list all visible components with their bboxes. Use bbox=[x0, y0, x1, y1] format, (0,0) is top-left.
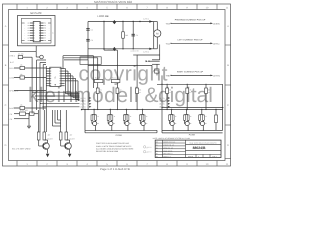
svg-text:D: D bbox=[227, 144, 229, 147]
svg-text:germ: germ bbox=[146, 151, 151, 154]
svg-text:A-GN: A-GN bbox=[108, 47, 113, 50]
svg-text:RESISTORS IN OHM 1/8W: RESISTORS IN OHM 1/8W bbox=[96, 150, 118, 153]
svg-text:(A-F1): (A-F1) bbox=[81, 97, 86, 100]
svg-text:C: C bbox=[5, 104, 7, 107]
svg-text:4k7: 4k7 bbox=[70, 134, 73, 137]
svg-text:A-GN 1.5V: A-GN 1.5V bbox=[131, 50, 140, 53]
svg-text:4k7: 4k7 bbox=[48, 134, 51, 137]
svg-text:RIGHT CURRENT PICK-UP: RIGHT CURRENT PICK-UP bbox=[177, 71, 204, 74]
svg-text:(B-F1): (B-F1) bbox=[159, 97, 164, 100]
svg-text:(B-F2): (B-F2) bbox=[159, 100, 164, 103]
svg-text:APPR W.S. 9.5: APPR W.S. 9.5 bbox=[163, 147, 173, 149]
svg-text:FOR TYPE 01-02 BLANKET-PLATE U: FOR TYPE 01-02 BLANKET-PLATE USE bbox=[96, 142, 130, 145]
svg-text:C-RB 1: C-RB 1 bbox=[9, 55, 16, 58]
svg-text:PROGRAM CURRENT PICK-UP: PROGRAM CURRENT PICK-UP bbox=[175, 19, 206, 22]
svg-text:T-EX: T-EX bbox=[166, 22, 171, 25]
svg-text:701: 701 bbox=[54, 76, 57, 79]
svg-text:ALL DIODES 1N4148 UNLESS NOTED: ALL DIODES 1N4148 UNLESS NOTED HERE bbox=[96, 147, 134, 150]
svg-text:C: C bbox=[227, 104, 229, 107]
svg-text:P1098: P1098 bbox=[189, 134, 196, 137]
svg-text:A-TN: A-TN bbox=[8, 113, 13, 116]
svg-text:digital: digital bbox=[158, 84, 213, 107]
svg-text:MATL FR4 1.5: MATL FR4 1.5 bbox=[163, 153, 172, 155]
svg-text:ISSUE REV B: ISSUE REV B bbox=[163, 150, 172, 152]
svg-text:MASTER/TRACK VIEW Bild: MASTER/TRACK VIEW Bild bbox=[94, 0, 132, 4]
svg-text:ICs: 2-6 NOT USED: ICs: 2-6 NOT USED bbox=[12, 147, 31, 150]
svg-text:(D-TL): (D-TL) bbox=[214, 42, 220, 45]
svg-text:Q1 32k: Q1 32k bbox=[18, 53, 24, 56]
svg-text:CHECK H.B. 3.5: CHECK H.B. 3.5 bbox=[163, 145, 174, 147]
svg-text:LOCO MB: LOCO MB bbox=[98, 15, 109, 18]
svg-text:T-RE: T-RE bbox=[165, 74, 170, 77]
svg-text:R5: R5 bbox=[156, 156, 158, 158]
svg-text:copyright: copyright bbox=[79, 63, 168, 86]
svg-text:D: D bbox=[5, 144, 7, 147]
svg-text:B-MO: B-MO bbox=[9, 107, 14, 110]
svg-text:BC337: BC337 bbox=[70, 138, 75, 141]
svg-text:(A-BT): (A-BT) bbox=[214, 22, 220, 25]
svg-text:germ: germ bbox=[146, 146, 151, 149]
svg-text:MC PLATE: MC PLATE bbox=[30, 12, 42, 15]
svg-text:DRAWN K.M. 12.4: DRAWN K.M. 12.4 bbox=[163, 142, 175, 144]
svg-text:(D-TH): (D-TH) bbox=[214, 74, 220, 77]
svg-text:A-TN: A-TN bbox=[8, 118, 13, 121]
svg-text:(A-F4): (A-F4) bbox=[81, 106, 86, 109]
svg-text:(B-F3): (B-F3) bbox=[159, 103, 164, 106]
svg-text:BC337: BC337 bbox=[48, 138, 53, 141]
svg-text:T-LO: T-LO bbox=[166, 42, 171, 45]
svg-text:3k3: 3k3 bbox=[125, 34, 128, 37]
svg-text:SPEAKER: SPEAKER bbox=[9, 89, 19, 92]
svg-text:R4: R4 bbox=[156, 153, 158, 155]
svg-text:88024/B: 88024/B bbox=[193, 146, 206, 150]
svg-text:(A-F3): (A-F3) bbox=[81, 103, 86, 106]
svg-text:R-FA: R-FA bbox=[9, 67, 14, 70]
svg-text:R1: R1 bbox=[156, 145, 158, 147]
svg-text:R2: R2 bbox=[156, 147, 158, 149]
svg-text:C4: C4 bbox=[136, 34, 138, 37]
svg-text:P1098: P1098 bbox=[116, 134, 123, 137]
svg-text:A-MB: A-MB bbox=[9, 76, 14, 79]
svg-text:(B-F4): (B-F4) bbox=[159, 106, 164, 109]
svg-text:LEFT CURRENT PICK-UP: LEFT CURRENT PICK-UP bbox=[178, 39, 203, 42]
svg-text:A-TN 2: A-TN 2 bbox=[143, 51, 149, 54]
svg-text:SHALL L WITH TRACK FORMAT MFX-: SHALL L WITH TRACK FORMAT MFX-DCC bbox=[96, 145, 132, 148]
svg-text:C2: C2 bbox=[91, 28, 93, 31]
svg-text:&: & bbox=[145, 84, 159, 107]
svg-text:R3: R3 bbox=[156, 150, 158, 152]
svg-text:A-TN 1: A-TN 1 bbox=[143, 18, 149, 21]
svg-text:C3: C3 bbox=[91, 39, 93, 42]
svg-text:(A-F2): (A-F2) bbox=[81, 100, 86, 103]
svg-text:M: M bbox=[156, 33, 158, 36]
svg-text:Page 1 of 1 D-Geb DTB: Page 1 of 1 D-Geb DTB bbox=[100, 167, 130, 171]
svg-text:R0: R0 bbox=[156, 142, 158, 144]
